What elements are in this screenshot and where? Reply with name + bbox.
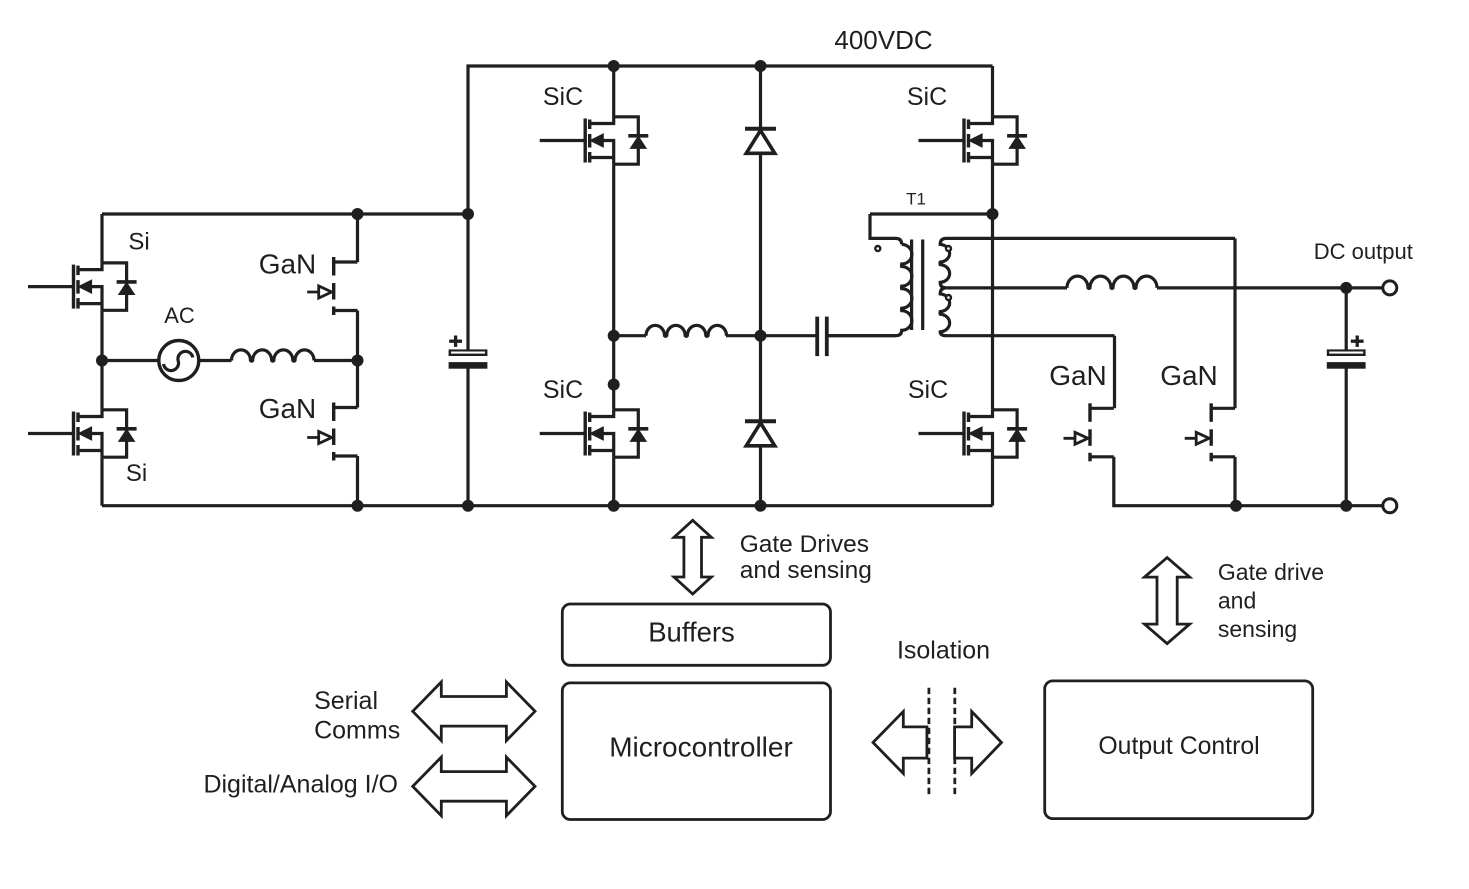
svg-text:Buffers: Buffers <box>648 617 735 648</box>
svg-text:Microcontroller: Microcontroller <box>609 731 793 762</box>
svg-text:Isolation: Isolation <box>897 637 990 665</box>
svg-text:Comms: Comms <box>314 717 400 745</box>
svg-text:Output Control: Output Control <box>1098 733 1259 760</box>
svg-text:SiC: SiC <box>543 83 583 111</box>
svg-text:GaN: GaN <box>1160 360 1218 391</box>
svg-text:GaN: GaN <box>1049 360 1107 391</box>
svg-text:SiC: SiC <box>908 376 948 404</box>
svg-text:sensing: sensing <box>1218 616 1297 642</box>
svg-text:T1: T1 <box>906 189 926 208</box>
svg-text:GaN: GaN <box>259 249 317 280</box>
svg-text:Gate drive: Gate drive <box>1218 559 1324 585</box>
svg-text:DC output: DC output <box>1314 239 1413 264</box>
svg-text:Serial: Serial <box>314 687 378 715</box>
svg-text:Digital/Analog I/O: Digital/Analog I/O <box>203 770 398 798</box>
svg-text:SiC: SiC <box>543 376 583 404</box>
svg-text:Gate Drives: Gate Drives <box>740 531 869 558</box>
svg-text:and sensing: and sensing <box>740 557 872 584</box>
svg-text:Si: Si <box>128 229 149 256</box>
svg-text:and: and <box>1218 588 1256 614</box>
svg-text:GaN: GaN <box>259 393 317 424</box>
svg-text:Si: Si <box>126 460 147 487</box>
svg-text:AC: AC <box>164 303 195 328</box>
svg-text:400VDC: 400VDC <box>834 25 932 55</box>
svg-text:SiC: SiC <box>907 83 947 111</box>
